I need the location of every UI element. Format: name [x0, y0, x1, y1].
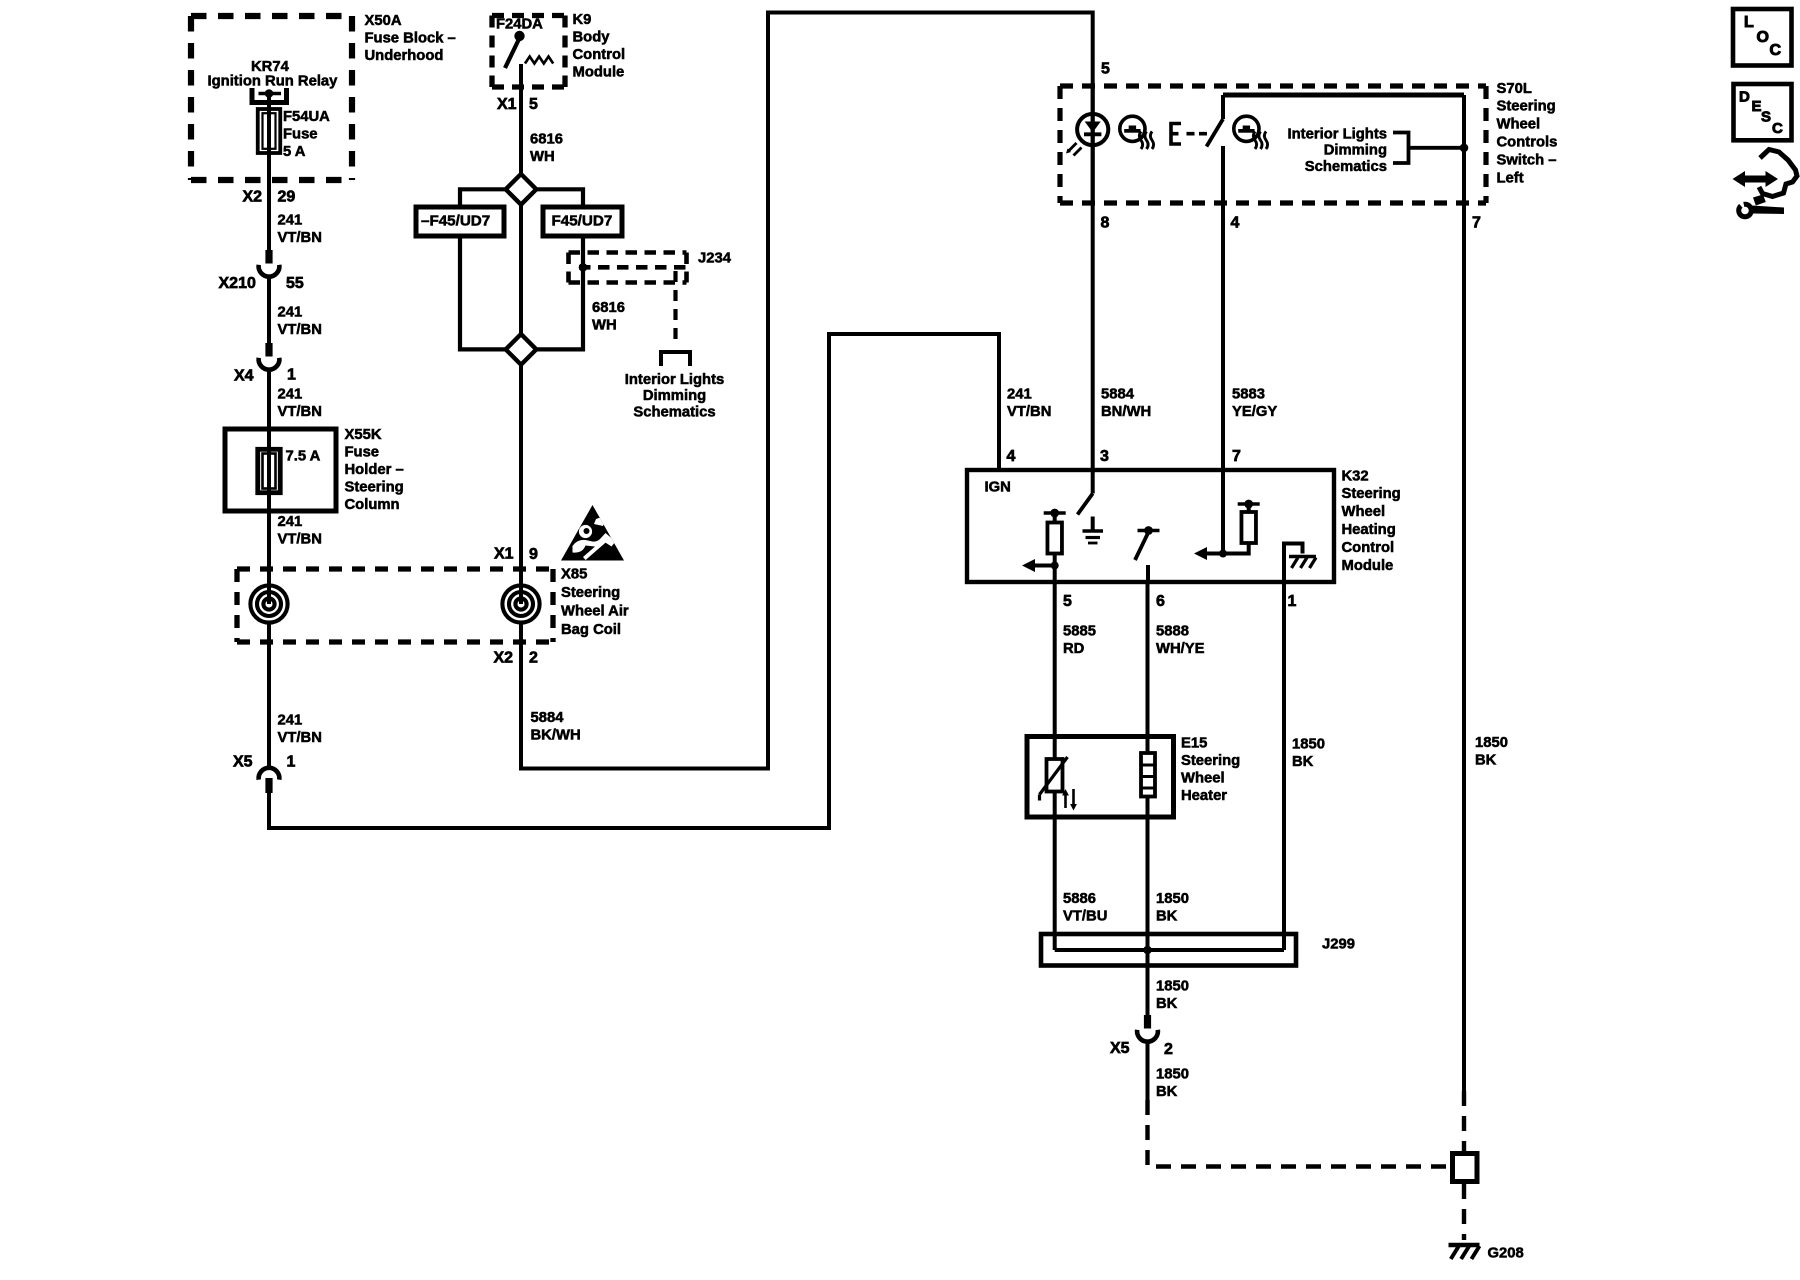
- svg-text:WH: WH: [530, 149, 555, 165]
- svg-text:Steering: Steering: [1497, 99, 1556, 115]
- svg-text:Column: Column: [345, 497, 400, 513]
- svg-text:Wheel: Wheel: [1181, 771, 1225, 787]
- svg-text:YE/GY: YE/GY: [1232, 404, 1277, 420]
- svg-text:BN/WH: BN/WH: [1101, 404, 1151, 420]
- svg-text:S: S: [1761, 109, 1771, 126]
- svg-text:29: 29: [278, 189, 296, 206]
- svg-text:6816: 6816: [592, 300, 625, 316]
- svg-text:3: 3: [1100, 448, 1109, 465]
- svg-text:1850: 1850: [1156, 891, 1189, 907]
- svg-text:6816: 6816: [530, 131, 563, 147]
- svg-text:8: 8: [1101, 215, 1110, 232]
- svg-text:Control: Control: [573, 47, 626, 63]
- svg-text:X2: X2: [243, 189, 263, 206]
- svg-text:Steering: Steering: [561, 585, 620, 601]
- svg-text:BK: BK: [1475, 752, 1497, 768]
- svg-text:X1: X1: [497, 96, 517, 113]
- svg-text:Wheel: Wheel: [1342, 504, 1386, 520]
- svg-text:241: 241: [278, 212, 303, 228]
- svg-text:Steering: Steering: [1181, 753, 1240, 769]
- svg-text:5886: 5886: [1063, 891, 1096, 907]
- svg-text:E15: E15: [1181, 735, 1207, 751]
- svg-text:BK: BK: [1156, 1084, 1178, 1100]
- svg-text:WH/YE: WH/YE: [1156, 641, 1205, 657]
- svg-text:Switch –: Switch –: [1497, 152, 1557, 168]
- svg-text:J234: J234: [698, 250, 732, 266]
- svg-text:Wheel Air: Wheel Air: [561, 604, 629, 620]
- svg-text:55: 55: [286, 275, 304, 292]
- svg-text:5884: 5884: [531, 710, 565, 726]
- svg-text:F54UA: F54UA: [283, 109, 330, 125]
- svg-text:5: 5: [1101, 61, 1110, 78]
- svg-text:–F45/UD7: –F45/UD7: [421, 213, 490, 230]
- svg-text:2: 2: [529, 650, 538, 667]
- svg-text:9: 9: [529, 546, 538, 563]
- svg-text:Underhood: Underhood: [365, 48, 444, 64]
- svg-text:Bag Coil: Bag Coil: [561, 622, 621, 638]
- svg-text:Module: Module: [573, 65, 625, 81]
- svg-text:S70L: S70L: [1497, 81, 1532, 97]
- svg-text:BK: BK: [1156, 908, 1178, 924]
- svg-text:241: 241: [278, 712, 303, 728]
- svg-text:Wheel: Wheel: [1497, 117, 1541, 133]
- svg-text:BK: BK: [1156, 996, 1178, 1012]
- svg-text:Body: Body: [573, 29, 611, 45]
- svg-text:241: 241: [278, 514, 303, 530]
- svg-text:5888: 5888: [1156, 623, 1189, 639]
- svg-text:O: O: [1757, 29, 1769, 46]
- svg-text:Controls: Controls: [1497, 135, 1558, 151]
- svg-text:5: 5: [529, 96, 538, 113]
- svg-text:1850: 1850: [1475, 735, 1508, 751]
- svg-text:Schematics: Schematics: [1305, 159, 1387, 175]
- svg-text:1: 1: [287, 367, 296, 384]
- svg-text:IGN: IGN: [985, 479, 1011, 495]
- svg-text:241: 241: [278, 386, 303, 402]
- svg-text:Holder –: Holder –: [345, 462, 404, 478]
- svg-text:X5: X5: [1110, 1040, 1130, 1057]
- svg-text:7.5 A: 7.5 A: [286, 448, 321, 464]
- svg-text:Module: Module: [1342, 558, 1394, 574]
- svg-text:WH: WH: [592, 317, 617, 333]
- svg-text:Left: Left: [1497, 170, 1524, 186]
- svg-text:X55K: X55K: [345, 427, 382, 443]
- svg-text:BK/WH: BK/WH: [531, 727, 581, 743]
- svg-text:C: C: [1772, 120, 1783, 137]
- svg-text:X210: X210: [219, 275, 256, 292]
- svg-text:X4: X4: [234, 368, 254, 385]
- svg-text:Steering: Steering: [1342, 486, 1401, 502]
- svg-text:Fuse: Fuse: [345, 444, 380, 460]
- svg-text:X50A: X50A: [365, 13, 402, 29]
- svg-text:G208: G208: [1488, 1245, 1524, 1261]
- svg-text:Steering: Steering: [345, 480, 404, 496]
- svg-text:2: 2: [1164, 1041, 1173, 1058]
- svg-text:5: 5: [1063, 593, 1072, 610]
- svg-text:6: 6: [1156, 593, 1165, 610]
- svg-text:BK: BK: [1292, 754, 1314, 770]
- svg-text:X5: X5: [233, 754, 253, 771]
- svg-text:7: 7: [1232, 448, 1241, 465]
- svg-text:1850: 1850: [1292, 736, 1325, 752]
- svg-text:4: 4: [1231, 215, 1240, 232]
- svg-text:Control: Control: [1342, 540, 1395, 556]
- svg-text:Heating: Heating: [1342, 522, 1396, 538]
- svg-text:RD: RD: [1063, 641, 1085, 657]
- svg-text:5 A: 5 A: [283, 144, 306, 160]
- svg-text:VT/BN: VT/BN: [278, 531, 322, 547]
- svg-text:Interior Lights: Interior Lights: [1288, 126, 1387, 142]
- svg-text:VT/BN: VT/BN: [278, 404, 322, 420]
- svg-text:Heater: Heater: [1181, 788, 1227, 804]
- svg-text:Interior Lights: Interior Lights: [625, 372, 724, 388]
- svg-text:VT/BU: VT/BU: [1063, 908, 1107, 924]
- svg-text:1: 1: [287, 754, 296, 771]
- svg-text:K9: K9: [573, 12, 592, 28]
- svg-text:D: D: [1739, 89, 1750, 106]
- svg-text:4: 4: [1007, 448, 1016, 465]
- svg-text:VT/BN: VT/BN: [278, 230, 322, 246]
- svg-text:J299: J299: [1322, 936, 1355, 952]
- svg-text:VT/BN: VT/BN: [278, 730, 322, 746]
- svg-text:F24DA: F24DA: [496, 16, 543, 32]
- svg-text:241: 241: [278, 304, 303, 320]
- svg-text:Fuse Block –: Fuse Block –: [365, 30, 456, 46]
- svg-text:1850: 1850: [1156, 978, 1189, 994]
- svg-text:Dimming: Dimming: [643, 388, 706, 404]
- svg-text:C: C: [1770, 42, 1782, 59]
- svg-text:1: 1: [1288, 593, 1297, 610]
- svg-text:241: 241: [1007, 386, 1032, 402]
- svg-text:1850: 1850: [1156, 1066, 1189, 1082]
- svg-text:E: E: [1752, 98, 1762, 115]
- svg-text:F45/UD7: F45/UD7: [552, 213, 613, 230]
- svg-text:X85: X85: [561, 566, 587, 582]
- svg-text:X2: X2: [494, 650, 514, 667]
- svg-text:7: 7: [1472, 215, 1481, 232]
- svg-text:Ignition Run Relay: Ignition Run Relay: [208, 73, 339, 89]
- svg-text:X1: X1: [494, 546, 514, 563]
- svg-text:5884: 5884: [1101, 386, 1135, 402]
- svg-text:VT/BN: VT/BN: [278, 322, 322, 338]
- svg-text:Fuse: Fuse: [283, 126, 318, 142]
- svg-text:Dimming: Dimming: [1324, 143, 1387, 159]
- svg-text:L: L: [1744, 14, 1754, 31]
- svg-text:VT/BN: VT/BN: [1007, 404, 1051, 420]
- svg-text:K32: K32: [1342, 468, 1369, 484]
- svg-text:5883: 5883: [1232, 386, 1265, 402]
- svg-text:Schematics: Schematics: [633, 405, 715, 421]
- svg-text:5885: 5885: [1063, 623, 1096, 639]
